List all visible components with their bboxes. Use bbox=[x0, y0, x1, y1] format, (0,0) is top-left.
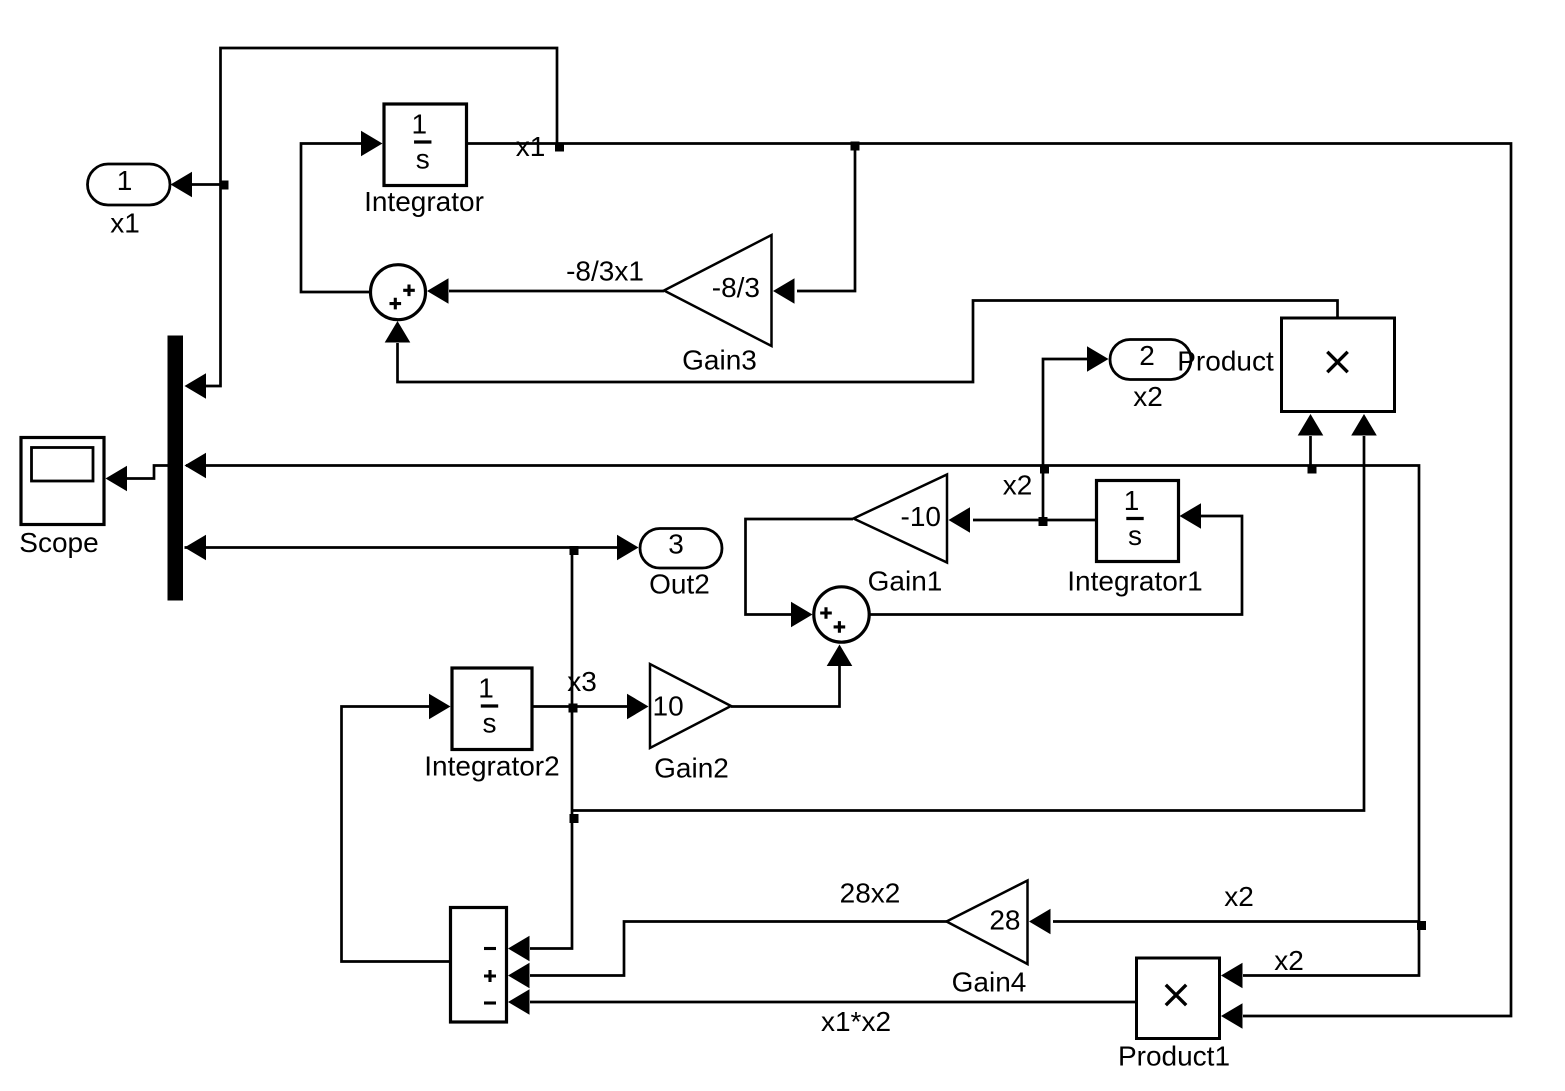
svg-text:s: s bbox=[416, 144, 430, 175]
wire x3 vertical branch down to Sum3 top minus input bbox=[530, 548, 572, 949]
arrowhead into Integrator bbox=[361, 131, 383, 157]
svg-text:10: 10 bbox=[653, 691, 684, 722]
arrowhead into Gain1 bbox=[949, 507, 971, 533]
svg-text:-8/3x1: -8/3x1 bbox=[566, 256, 644, 287]
svg-text:x2: x2 bbox=[1224, 881, 1254, 912]
svg-text:1: 1 bbox=[411, 108, 427, 139]
junction x3 at Out2 line bbox=[570, 546, 579, 555]
junction x2 trunk crossing bbox=[1040, 465, 1049, 474]
wire Gain3 output to Sum1 bbox=[449, 290, 664, 293]
wire Integrator1 output x2 to Gain1 input bbox=[973, 519, 1097, 522]
svg-text:28: 28 bbox=[989, 905, 1020, 936]
wire x1 main line from Integrator output to far right and down to Product1 bbox=[466, 144, 1511, 1017]
junction outport x1 branch bbox=[220, 181, 229, 190]
wire Gain4 output 28x2 to Sum3 plus input bbox=[530, 922, 947, 976]
junction x2 to Product left input bbox=[1308, 465, 1317, 474]
svg-text:x3: x3 bbox=[567, 666, 597, 697]
mux block bbox=[168, 336, 184, 601]
junction x2 to Gain4 bbox=[1417, 921, 1426, 930]
wire Integrator2 output x3 to Gain2 input bbox=[532, 705, 627, 708]
svg-text:Scope: Scope bbox=[19, 527, 98, 558]
svg-text:x1: x1 bbox=[110, 208, 140, 239]
wire Gain2 output to Sum2 bottom input bbox=[731, 666, 840, 707]
arrowhead into Integrator1 input bbox=[1180, 503, 1202, 529]
arrowhead into outport 3 bbox=[617, 535, 639, 561]
svg-text:Product: Product bbox=[1177, 346, 1274, 377]
arrowhead into mux input 1 bbox=[185, 373, 207, 399]
arrowhead into Scope bbox=[106, 466, 128, 492]
svg-text:1: 1 bbox=[1124, 485, 1140, 516]
integrator block Integrator2 bbox=[452, 668, 532, 750]
arrowhead into Product1 first input bbox=[1221, 963, 1243, 989]
svg-text:2: 2 bbox=[1139, 340, 1155, 371]
svg-text:1: 1 bbox=[117, 165, 133, 196]
outport block 2 bbox=[1110, 340, 1191, 380]
sum block Sum3 bbox=[451, 908, 507, 1023]
gain block Gain1 value -10 bbox=[854, 475, 948, 563]
svg-text:Integrator: Integrator bbox=[364, 186, 484, 217]
svg-text:x2: x2 bbox=[1133, 381, 1163, 412]
svg-text:x1: x1 bbox=[516, 131, 546, 162]
svg-text:s: s bbox=[483, 708, 497, 739]
arrowhead into outport 2 bbox=[1087, 346, 1109, 372]
product block Product1 bbox=[1137, 958, 1220, 1039]
product block Product bbox=[1282, 318, 1395, 412]
arrowhead into Sum3 bottom minus input bbox=[508, 989, 530, 1015]
integrator block Integrator bbox=[384, 104, 467, 186]
wire Sum2 output to Integrator1 input bbox=[869, 516, 1242, 615]
wire x2 branch to Gain4 input bbox=[1053, 920, 1419, 923]
svg-text:1: 1 bbox=[478, 672, 494, 703]
arrowhead into Product1 second input bbox=[1221, 1003, 1243, 1029]
junction x3 to Product branch bbox=[570, 814, 579, 823]
arrowhead into Sum3 plus input bbox=[508, 963, 530, 989]
arrowhead into Integrator2 bbox=[429, 694, 451, 720]
arrowhead into outport 1 bbox=[171, 172, 193, 198]
arrowhead into Sum2 left input bbox=[791, 602, 813, 628]
svg-text:Gain4: Gain4 bbox=[952, 967, 1027, 998]
outport block 1 bbox=[88, 164, 171, 205]
svg-text:Integrator1: Integrator1 bbox=[1067, 566, 1202, 597]
wire x1 branch up over top to mux input 1 bbox=[206, 48, 557, 386]
wire x2 trunk from mux input 2 to far right down to Product1 first input bbox=[186, 466, 1419, 976]
sum block Sum1 bbox=[371, 265, 426, 320]
gain block Gain2 value 10 bbox=[650, 664, 731, 748]
wire Gain1 output to Sum2 left input bbox=[746, 519, 854, 615]
wire Sum1 output to Integrator input bbox=[301, 144, 371, 293]
arrowhead into Sum1 right input bbox=[427, 278, 449, 304]
wire Product1 output x1*x2 to Sum3 bottom minus input bbox=[530, 1001, 1137, 1004]
junction x1 line top branch bbox=[555, 143, 564, 152]
wire branch to outport x1 bbox=[192, 183, 221, 186]
svg-text:s: s bbox=[1128, 520, 1142, 551]
svg-text:x2: x2 bbox=[1003, 470, 1033, 501]
arrowhead into mux input 3 bbox=[185, 535, 207, 561]
svg-text:Integrator2: Integrator2 bbox=[424, 751, 559, 782]
svg-text:28x2: 28x2 bbox=[840, 878, 901, 909]
arrowhead into Gain2 bbox=[627, 694, 649, 720]
wire x2 branch up to outport 2 bbox=[1043, 359, 1087, 520]
svg-text:Out2: Out2 bbox=[649, 569, 710, 600]
svg-text:Product1: Product1 bbox=[1118, 1041, 1230, 1072]
outport block 3 Out2 bbox=[640, 529, 722, 569]
wire x2 branch up to Product left input bbox=[1309, 436, 1312, 466]
arrowhead into Product left input bbox=[1298, 414, 1324, 436]
junction x1 to Gain3 branch bbox=[851, 142, 860, 151]
arrowhead into Sum1 bottom input bbox=[385, 321, 411, 343]
wire mux output to Scope bbox=[127, 466, 168, 479]
svg-text:-8/3: -8/3 bbox=[712, 272, 760, 303]
arrowhead into Gain3 bbox=[773, 278, 795, 304]
svg-text:3: 3 bbox=[668, 529, 684, 560]
wire Product output to Sum1 bottom input bbox=[398, 301, 1338, 383]
scope block bbox=[21, 438, 104, 525]
arrowhead into Product right input bbox=[1351, 414, 1377, 436]
sum block Sum2 bbox=[814, 587, 869, 642]
svg-text:x1*x2: x1*x2 bbox=[821, 1006, 891, 1037]
svg-text:Gain2: Gain2 bbox=[654, 753, 729, 784]
arrowhead into Sum3 top minus input bbox=[508, 936, 530, 962]
arrowhead into mux input 2 bbox=[185, 453, 207, 479]
gain block Gain4 value 28 bbox=[947, 881, 1028, 965]
wire x1 branch down to Gain3 input bbox=[797, 144, 855, 292]
gain block Gain3 value -8/3 bbox=[664, 235, 772, 346]
junction x2 at Integrator1 output bbox=[1039, 517, 1048, 526]
wire x3 to mux input 3 and outport 3 bbox=[185, 546, 618, 549]
svg-text:-10: -10 bbox=[901, 501, 941, 532]
svg-text:Gain3: Gain3 bbox=[682, 345, 757, 376]
arrowhead into Sum2 bottom input bbox=[827, 645, 853, 667]
wire x3 branch to Product right input bbox=[572, 436, 1364, 811]
arrowhead into Gain4 bbox=[1029, 909, 1051, 935]
svg-text:Gain1: Gain1 bbox=[868, 566, 943, 597]
integrator block Integrator1 bbox=[1097, 481, 1179, 562]
svg-text:x2: x2 bbox=[1274, 945, 1304, 976]
junction x3 at Integrator2 output bbox=[569, 704, 578, 713]
wire Sum3 output to Integrator2 input bbox=[342, 707, 451, 962]
